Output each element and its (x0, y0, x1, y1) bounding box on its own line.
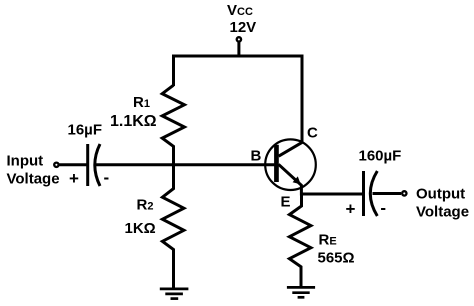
svg-text:565Ω: 565Ω (318, 249, 355, 266)
svg-text:1KΩ: 1KΩ (125, 220, 156, 237)
svg-text:R2: R2 (137, 197, 154, 214)
svg-text:1.1KΩ: 1.1KΩ (110, 113, 157, 130)
svg-text:Voltage: Voltage (7, 170, 60, 187)
svg-text:B: B (251, 148, 262, 165)
svg-text:-: - (380, 198, 386, 217)
svg-text:RE: RE (319, 231, 337, 248)
svg-text:+: + (346, 200, 356, 219)
svg-text:Voltage: Voltage (416, 204, 469, 221)
svg-text:VCC: VCC (227, 2, 253, 19)
svg-text:+: + (69, 169, 79, 188)
svg-text:R1: R1 (133, 94, 150, 111)
svg-text:Output: Output (416, 185, 465, 202)
svg-text:12V: 12V (230, 19, 257, 36)
svg-text:E: E (281, 193, 291, 210)
svg-text:Input: Input (7, 153, 44, 170)
svg-text:160µF: 160µF (359, 147, 402, 164)
svg-text:C: C (307, 125, 318, 142)
svg-text:16µF: 16µF (68, 122, 103, 139)
svg-text:-: - (104, 168, 110, 187)
